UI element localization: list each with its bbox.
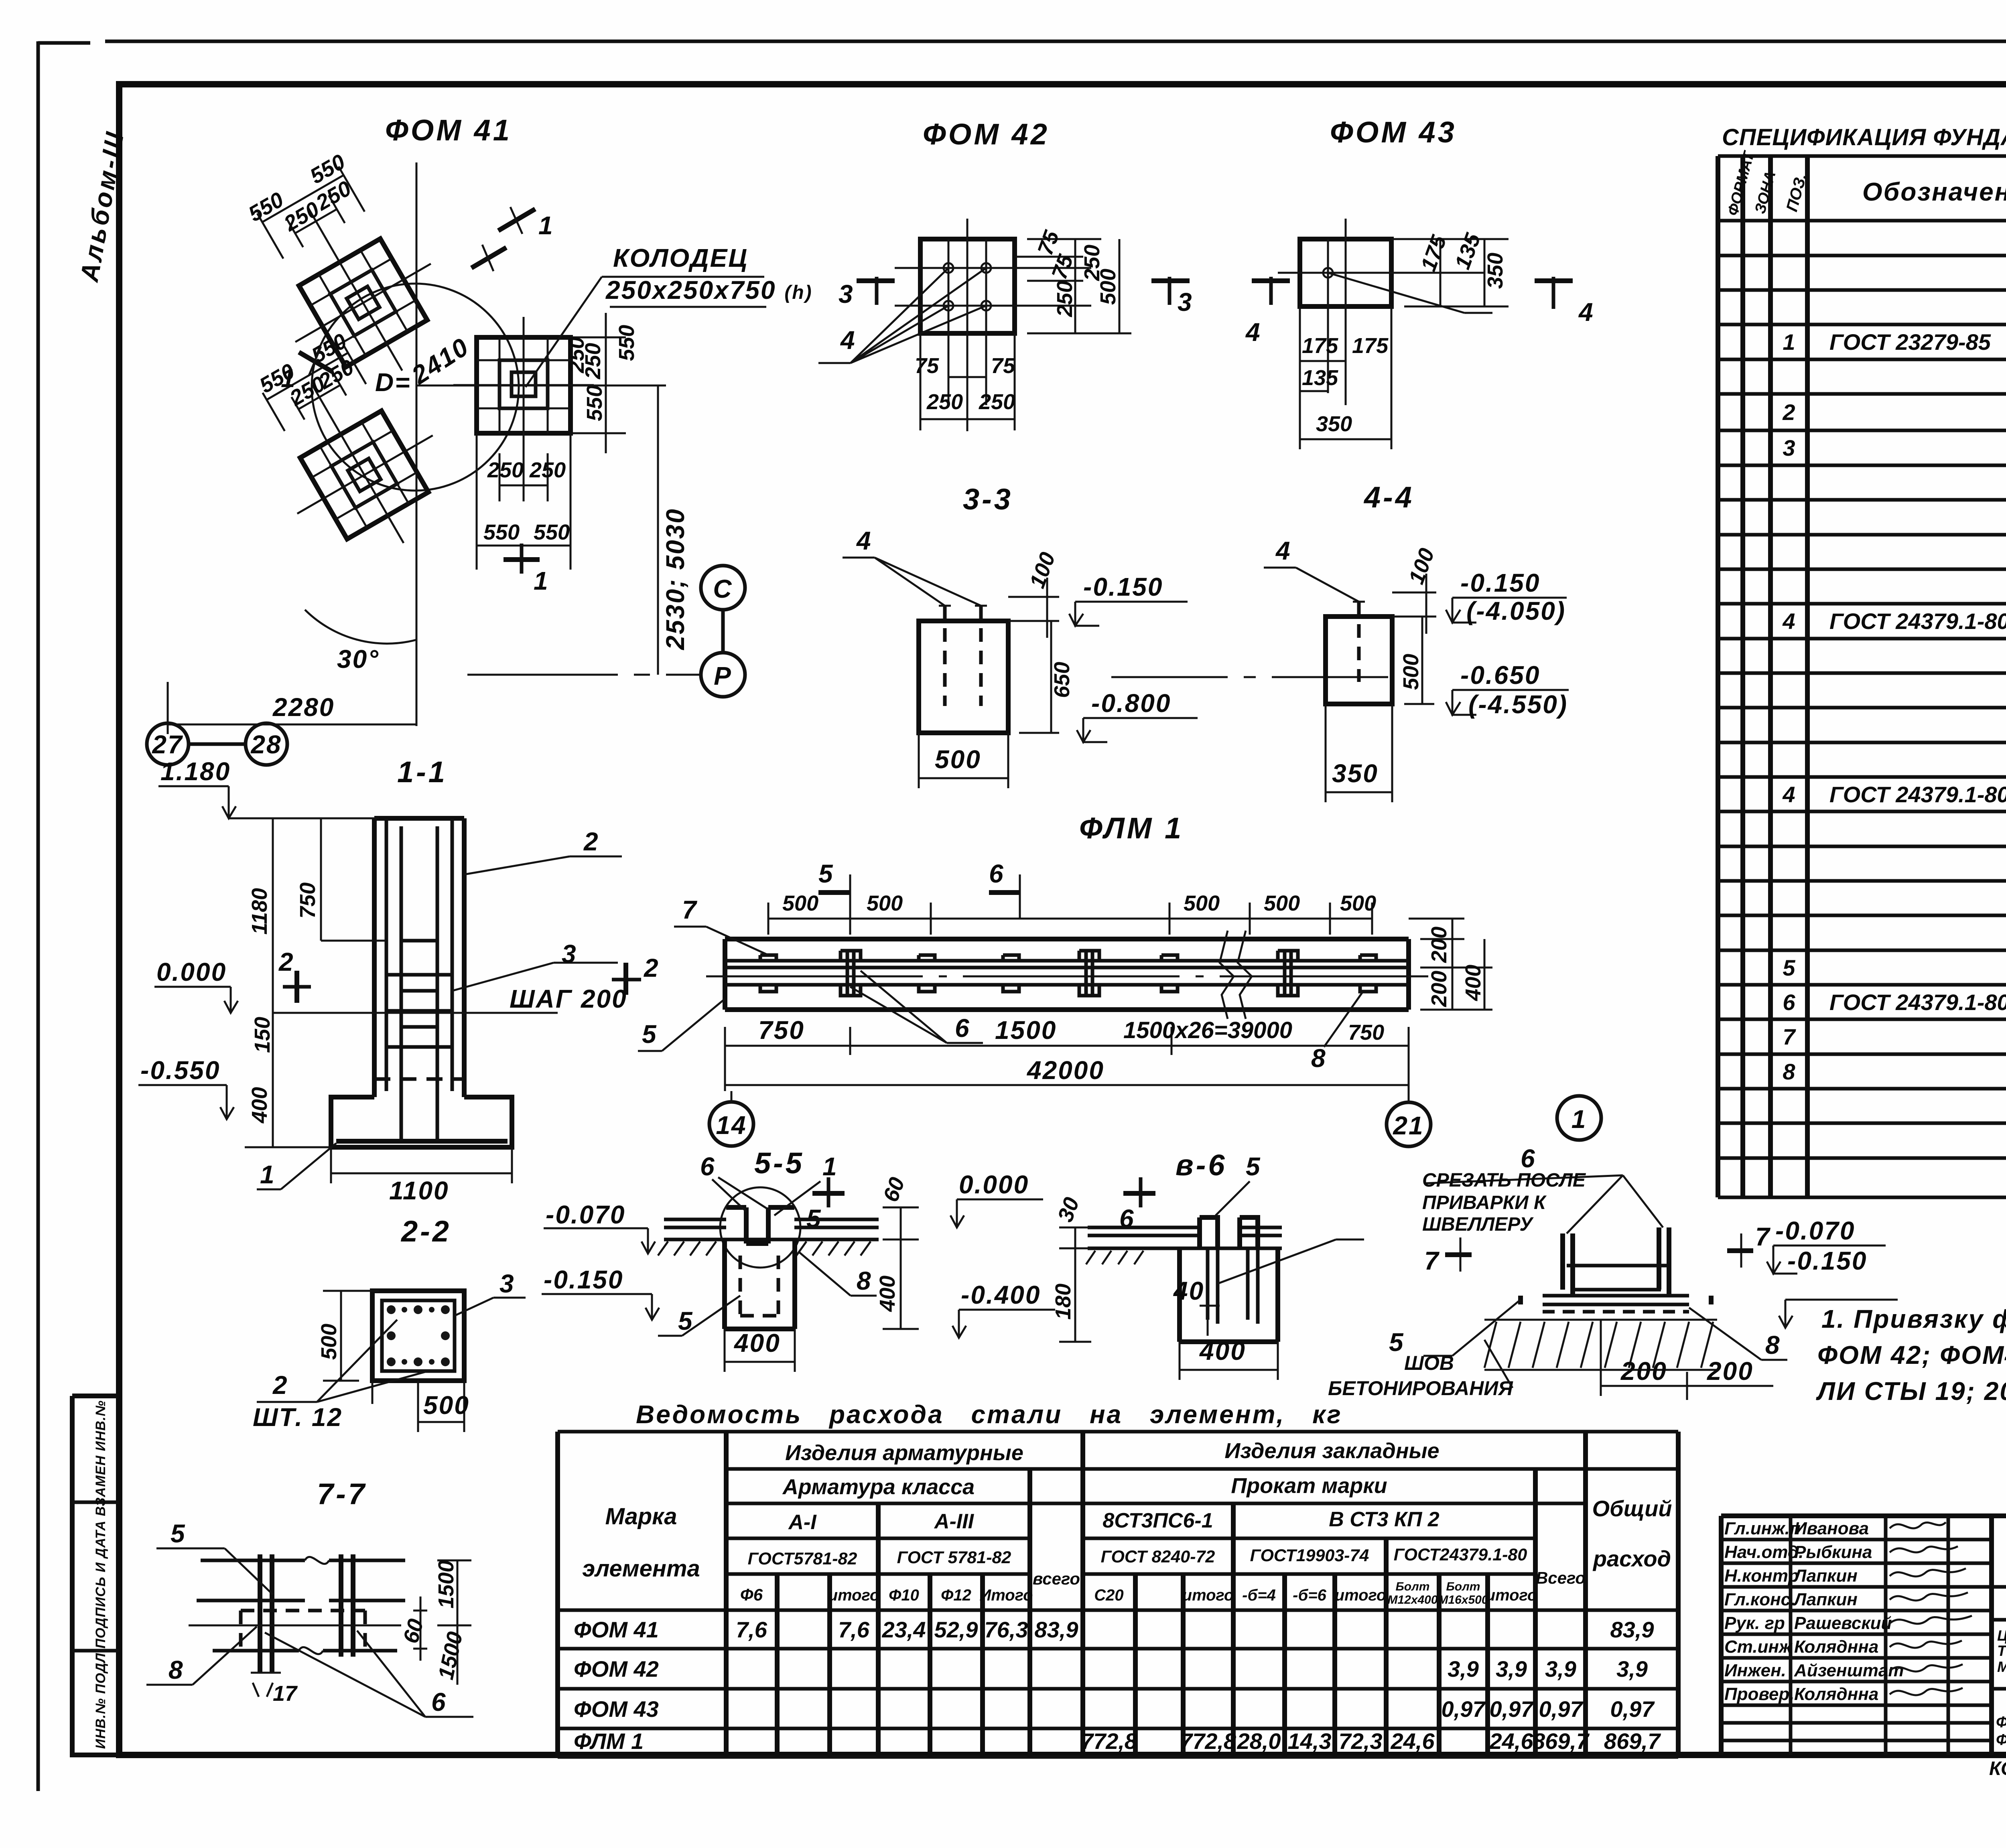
label 1 leader bottom (257, 1143, 336, 1189)
leader 4 (843, 558, 981, 606)
svg-text:250: 250 (926, 390, 963, 414)
svg-text:7: 7 (1755, 1222, 1771, 1251)
svg-text:4: 4 (1578, 298, 1594, 327)
svg-text:400: 400 (733, 1329, 781, 1357)
plate (1521, 1296, 1711, 1304)
svg-text:2280: 2280 (272, 693, 335, 722)
bottom lines (213, 1649, 397, 1653)
svg-text:Гл.инж.п: Гл.инж.п (1724, 1519, 1801, 1538)
svg-text:1: 1 (538, 211, 554, 240)
svg-text:0,97: 0,97 (1610, 1696, 1655, 1722)
kolodec well inside column (401, 826, 437, 941)
svg-text:Изделия арматурные: Изделия арматурные (785, 1441, 1023, 1465)
svg-text:0,97: 0,97 (1442, 1696, 1486, 1722)
svg-text:8: 8 (857, 1266, 872, 1295)
section marks 6 (1123, 1191, 1155, 1196)
svg-text:550: 550 (615, 325, 639, 361)
bolt tops (939, 605, 987, 607)
svg-text:2: 2 (644, 953, 660, 982)
svg-text:Всего: Всего (1536, 1568, 1586, 1587)
plan vertical centerline (416, 162, 418, 726)
right dims 175 135 350 (1391, 239, 1509, 306)
svg-text:500: 500 (317, 1324, 341, 1360)
grid circle 21 (1387, 1102, 1431, 1146)
section mark 1 top right (498, 209, 535, 231)
svg-text:1: 1 (534, 566, 549, 595)
column outer walls (374, 818, 464, 1097)
bottom-left dims 175 175 135 350 (1300, 306, 1391, 449)
dim 400 bottom (1180, 1342, 1278, 1380)
svg-text:ГОСТ 23279-85: ГОСТ 23279-85 (1829, 329, 1991, 355)
svg-text:5: 5 (171, 1519, 186, 1548)
svg-text:7: 7 (1783, 1024, 1796, 1049)
vertical dim 2530;5030 (582, 385, 666, 675)
svg-text:ГОСТ 24379.1-80: ГОСТ 24379.1-80 (1829, 782, 2006, 807)
svg-text:500: 500 (782, 891, 818, 915)
elevation -0.150 (-4.050) (1446, 598, 1567, 623)
dim 650 (1019, 621, 1059, 733)
svg-text:-б=6: -б=6 (1293, 1586, 1326, 1604)
svg-text:250x250x750 (h): 250x250x750 (h) (605, 276, 813, 304)
right dims 75 250 250 500 (1015, 239, 1131, 333)
right dims 1500 60 1500 (413, 1560, 471, 1685)
svg-text:30°: 30° (337, 645, 380, 673)
svg-text:-0.150: -0.150 (1460, 568, 1540, 597)
svg-text:135: 135 (1302, 366, 1338, 390)
svg-text:1500x26=39000: 1500x26=39000 (1123, 1017, 1292, 1043)
svg-text:ГОСТ24379.1-80: ГОСТ24379.1-80 (1394, 1545, 1527, 1564)
svg-text:17: 17 (273, 1682, 298, 1706)
svg-text:2-2: 2-2 (400, 1215, 451, 1248)
outer sheet border top (38, 41, 2006, 43)
rebar verticals into footing (401, 941, 437, 1141)
dim 100 right top (1008, 578, 1059, 638)
svg-text:8СТ3ПС6-1: 8СТ3ПС6-1 (1102, 1509, 1213, 1532)
svg-text:6: 6 (989, 859, 1005, 888)
svg-text:1500: 1500 (434, 1560, 458, 1609)
svg-text:500: 500 (1340, 891, 1376, 915)
grid circle 14 (709, 1102, 753, 1146)
svg-text:75: 75 (915, 354, 939, 378)
label 8 leader (798, 1252, 877, 1296)
svg-text:772,8: 772,8 (1081, 1728, 1137, 1754)
svg-text:28: 28 (250, 730, 282, 759)
label 8 leader (1689, 1308, 1787, 1360)
svg-text:Коляднна: Коляднна (1794, 1684, 1878, 1704)
grid circle P (701, 653, 745, 697)
ground line 0.000 (281, 1012, 558, 1014)
svg-text:500: 500 (935, 745, 981, 774)
layout circle D=2410 (312, 284, 519, 491)
svg-text:1.180: 1.180 (160, 757, 231, 786)
30 deg arc and label (305, 610, 416, 643)
vedomost grid vertical (558, 1432, 1678, 1757)
personnel rows (1721, 1540, 2006, 1740)
svg-text:350: 350 (1332, 759, 1379, 788)
svg-text:1: 1 (260, 1160, 276, 1189)
foundation square right (plan) (453, 317, 594, 453)
section marks 5 around title (812, 1191, 845, 1196)
svg-text:7,6: 7,6 (838, 1617, 870, 1642)
svg-text:ФОМ 42: ФОМ 42 (923, 118, 1050, 151)
svg-text:3,9: 3,9 (1616, 1656, 1648, 1682)
svg-text:D=: D= (375, 368, 411, 397)
svg-text:5: 5 (818, 859, 834, 888)
ground hatching (658, 1241, 871, 1256)
label leaders to right bottom (265, 1631, 473, 1717)
anchor bolt dashed (1357, 602, 1361, 682)
svg-text:-0.150: -0.150 (544, 1265, 623, 1294)
anchor bolts down (1208, 1248, 1258, 1324)
section mark 7 right (1740, 1233, 1742, 1268)
section mark 1 top (near top square) (471, 247, 506, 268)
svg-text:52,9: 52,9 (934, 1617, 978, 1642)
svg-text:28,0: 28,0 (1237, 1728, 1281, 1754)
anchor bolts dashed (945, 606, 981, 706)
dim 40 (1200, 1306, 1220, 1336)
svg-text:1180: 1180 (248, 888, 272, 935)
leader lines to 3 4 (818, 268, 986, 363)
dim chain 500s above beam (768, 903, 1372, 935)
svg-text:Ф10: Ф10 (889, 1586, 919, 1604)
svg-text:ФЛМ 1: ФЛМ 1 (1079, 811, 1184, 845)
svg-text:500: 500 (423, 1391, 470, 1420)
svg-text:6: 6 (1521, 1144, 1536, 1173)
svg-text:5: 5 (1246, 1152, 1261, 1181)
svg-text:Рашевский: Рашевский (1794, 1613, 1892, 1633)
svg-text:ЦЕХ ПО ИЗГОТОВЛЕНИЮ СТРОИ-: ЦЕХ ПО ИЗГОТОВЛЕНИЮ СТРОИ- (1997, 1627, 2006, 1644)
svg-text:А-III: А-III (934, 1510, 975, 1533)
svg-text:Провер.: Провер. (1724, 1684, 1794, 1704)
vertical bolts hatched (260, 1554, 353, 1673)
pit (1180, 1248, 1278, 1342)
svg-text:Обозначение: Обозначение (1862, 177, 2006, 206)
svg-text:Ф12: Ф12 (941, 1586, 971, 1604)
svg-text:ФУНДАМЕНТЫ ПОД ОБОРУДОВАНИЕ: ФУНДАМЕНТЫ ПОД ОБОРУДОВАНИЕ (1996, 1714, 2006, 1731)
svg-text:Гл.конс.: Гл.конс. (1724, 1590, 1795, 1609)
dim row 750 1500 ... (725, 1027, 1409, 1091)
svg-text:ГОСТ5781-82: ГОСТ5781-82 (748, 1549, 857, 1568)
svg-text:175: 175 (1352, 334, 1389, 358)
2280 dim (168, 682, 416, 734)
svg-text:83,9: 83,9 (1610, 1617, 1654, 1642)
svg-text:6: 6 (1783, 990, 1795, 1015)
stamp column dividers (72, 1502, 119, 1651)
svg-text:СПЕЦИФИКАЦИЯ ФУНДАМЕНТОВ ФОМ: СПЕЦИФИКАЦИЯ ФУНДАМЕНТОВ ФОМ41...ФОМ43 ;… (1722, 124, 2006, 150)
svg-text:500: 500 (1264, 891, 1300, 915)
svg-text:Общий: Общий (1592, 1496, 1672, 1521)
anchor bolts (944, 263, 953, 273)
dashed (1543, 1310, 1689, 1314)
svg-text:500: 500 (1096, 269, 1120, 305)
svg-text:-0.650: -0.650 (1460, 661, 1540, 690)
svg-text:550: 550 (483, 520, 520, 544)
svg-text:Иванова: Иванова (1794, 1519, 1869, 1538)
svg-text:3: 3 (839, 280, 854, 308)
svg-text:0.000: 0.000 (959, 1170, 1029, 1199)
left dim chain 1180 750 150 400 (245, 818, 385, 1147)
svg-text:-0.400: -0.400 (961, 1280, 1041, 1309)
svg-text:-б=4: -б=4 (1242, 1586, 1276, 1604)
svg-text:6: 6 (955, 1014, 971, 1043)
svg-text:-0.070: -0.070 (546, 1200, 625, 1229)
svg-text:400: 400 (1461, 965, 1485, 1001)
svg-text:4-4: 4-4 (1363, 481, 1414, 514)
svg-text:Инжен.: Инжен. (1724, 1661, 1786, 1680)
rebar dots (387, 1305, 450, 1366)
svg-text:3,9: 3,9 (1496, 1656, 1527, 1682)
axis P dashed line (467, 674, 702, 676)
ground hatch (1086, 1251, 1143, 1264)
channel section between bolts (1567, 1266, 1667, 1290)
svg-text:2: 2 (1782, 400, 1795, 425)
svg-text:ШОВ: ШОВ (1404, 1352, 1454, 1374)
svg-text:175: 175 (1302, 334, 1338, 358)
beam outline (725, 939, 1409, 1010)
svg-text:Н.контр: Н.контр (1724, 1566, 1799, 1586)
svg-text:750: 750 (758, 1016, 805, 1045)
dim chain above (257, 166, 365, 259)
svg-text:-0.150: -0.150 (1787, 1246, 1867, 1275)
svg-text:В СТ3 КП 2: В СТ3 КП 2 (1329, 1508, 1440, 1531)
grid circle 1 (1557, 1096, 1601, 1140)
svg-text:6: 6 (700, 1152, 716, 1181)
svg-text:расход: расход (1592, 1546, 1671, 1571)
svg-text:8: 8 (1783, 1059, 1795, 1084)
svg-text:4: 4 (1275, 536, 1291, 565)
dim 100 top (1392, 574, 1436, 634)
dim 42000 (725, 1084, 1409, 1086)
svg-text:ШАГ 200: ШАГ 200 (510, 984, 627, 1013)
vedomost grid horizontal (558, 1432, 1678, 1757)
plan square (1300, 239, 1391, 306)
label 5 leader (658, 1296, 740, 1336)
top channel line (201, 1559, 405, 1562)
svg-text:24,6: 24,6 (1489, 1728, 1534, 1754)
svg-text:0.000: 0.000 (156, 957, 227, 986)
svg-text:1-1: 1-1 (397, 755, 447, 789)
channel recess (726, 1207, 794, 1243)
svg-text:ГОСТ 24379.1-80: ГОСТ 24379.1-80 (1829, 990, 2006, 1015)
label 3 шаг 200 (452, 963, 618, 991)
svg-text:27: 27 (152, 730, 183, 759)
svg-text:ПРИВАРКИ К: ПРИВАРКИ К (1422, 1192, 1547, 1213)
label 6 leader mid (850, 971, 983, 1043)
personnel columns (1989, 1516, 1994, 1755)
svg-text:7-7: 7-7 (317, 1477, 367, 1511)
top plate lines (664, 1219, 879, 1239)
section mark 6 above (1019, 874, 1021, 919)
svg-text:А-I: А-I (788, 1511, 817, 1534)
svg-text:5-5: 5-5 (754, 1146, 804, 1180)
dashed footing line (374, 1077, 464, 1081)
dim 500 right (1404, 617, 1434, 704)
svg-text:Лапкин: Лапкин (1793, 1566, 1858, 1586)
bolt clusters along beam (760, 951, 1376, 996)
section mark 5 above (849, 874, 851, 919)
svg-text:350: 350 (1316, 412, 1352, 436)
svg-text:2: 2 (272, 1371, 288, 1400)
beam centerline (706, 976, 1428, 978)
svg-text:7,6: 7,6 (736, 1617, 767, 1642)
svg-text:Арматура класса: Арматура класса (782, 1475, 975, 1499)
svg-text:250: 250 (1053, 281, 1077, 317)
channel rails (725, 961, 1409, 985)
beam right end dims 200 200 400 (1409, 919, 1492, 1010)
section mark 3 left (857, 278, 895, 283)
svg-text:ИНВ.№ ПОДЛ ПОДПИСЬ И ДАТА ВЗ: ИНВ.№ ПОДЛ ПОДПИСЬ И ДАТА ВЗАМЕН ИНВ.№ (93, 1400, 108, 1749)
elevation -0.150 (1075, 602, 1188, 626)
label 2 leader (464, 856, 622, 874)
svg-text:ФОМ 43: ФОМ 43 (574, 1696, 659, 1722)
dims 200 200 (1601, 1320, 1773, 1400)
mid horizontal lines (197, 1599, 405, 1603)
personnel names (1724, 1519, 1904, 1704)
svg-text:550: 550 (534, 520, 570, 544)
section mark 4 right (1535, 278, 1573, 283)
title block frame (1721, 1516, 2006, 1755)
svg-text:21: 21 (1393, 1111, 1424, 1140)
svg-text:элемента: элемента (582, 1556, 700, 1582)
svg-text:14,3: 14,3 (1288, 1728, 1332, 1754)
svg-text:200: 200 (1427, 927, 1451, 963)
section mark 7 left (1460, 1237, 1462, 1272)
svg-text:КОПИРОВАЛ: ГРАФСКАЯ: КОПИРОВАЛ: ГРАФСКАЯ (1989, 1758, 2006, 1779)
rotated square bottom-left (227, 315, 472, 582)
svg-text:7: 7 (682, 895, 698, 924)
svg-text:0,97: 0,97 (1490, 1696, 1535, 1722)
svg-text:Ф6: Ф6 (740, 1585, 763, 1604)
leader 4 (1264, 568, 1359, 602)
svg-text:500: 500 (867, 891, 903, 915)
svg-text:итого: итого (828, 1586, 880, 1604)
top plates (1088, 1227, 1282, 1248)
svg-text:Айзенштат: Айзенштат (1794, 1661, 1904, 1680)
svg-text:3: 3 (499, 1269, 515, 1298)
svg-text:С20: С20 (1094, 1586, 1123, 1604)
svg-text:Лапкин: Лапкин (1793, 1590, 1858, 1609)
svg-text:ЛИ СТЫ 19; 20 ; 21: ЛИ СТЫ 19; 20 ; 21 (1816, 1377, 2006, 1406)
label 3 leader (455, 1298, 526, 1316)
svg-text:250: 250 (487, 458, 524, 482)
svg-text:400: 400 (875, 1276, 899, 1312)
svg-text:8: 8 (169, 1655, 184, 1684)
svg-text:75: 75 (991, 354, 1015, 378)
svg-text:Коляднна: Коляднна (1794, 1637, 1878, 1657)
svg-text:4: 4 (1782, 782, 1795, 807)
svg-text:42000: 42000 (1026, 1056, 1105, 1085)
svg-text:5: 5 (678, 1306, 694, 1335)
bolt axes lines across (895, 239, 1091, 405)
svg-text:ФОМ 43: ФОМ 43 (1330, 116, 1457, 149)
label 8 leader right (1324, 993, 1362, 1047)
svg-text:МОЩНОСТЬЮ 6,0ТЫС.ТОНН ИЗДЕ-: МОЩНОСТЬЮ 6,0ТЫС.ТОНН ИЗДЕ- (1997, 1659, 2006, 1675)
svg-text:40: 40 (1173, 1276, 1204, 1305)
section mark 1 left (299, 352, 333, 372)
break marks (1220, 931, 1252, 1019)
svg-text:ФОМ 41: ФОМ 41 (385, 114, 512, 147)
centerline vertical (966, 219, 968, 431)
leader to 4 (1328, 273, 1492, 313)
svg-text:-0.550: -0.550 (140, 1056, 220, 1085)
svg-text:1: 1 (822, 1152, 838, 1181)
bottom bolt ends (251, 1673, 281, 1697)
dim 500 bottom (372, 1381, 464, 1432)
svg-text:4: 4 (1245, 318, 1261, 347)
spec table grid (1718, 156, 2006, 1197)
svg-text:Марка: Марка (605, 1503, 677, 1530)
svg-text:1500: 1500 (995, 1016, 1057, 1045)
footing (331, 1097, 512, 1147)
column square (372, 1291, 464, 1381)
svg-text:2: 2 (278, 947, 294, 976)
svg-text:итого: итого (1335, 1586, 1387, 1604)
svg-text:5: 5 (1389, 1328, 1405, 1357)
plan square (920, 239, 1015, 333)
svg-text:М12х400: М12х400 (1387, 1593, 1437, 1607)
dim 1100 bottom (331, 1147, 512, 1183)
svg-text:2530; 5030: 2530; 5030 (661, 508, 690, 650)
dims 180 30 left (1059, 1227, 1091, 1342)
svg-text:ФОМ 42: ФОМ 42 (574, 1656, 659, 1682)
svg-text:КОЛОДЕЦ: КОЛОДЕЦ (613, 243, 748, 272)
svg-text:650: 650 (1050, 662, 1074, 698)
svg-text:2: 2 (583, 827, 599, 856)
label 5 leader (1423, 1300, 1521, 1356)
dim 350 bottom (1326, 704, 1392, 802)
svg-text:1: 1 (1783, 329, 1795, 355)
svg-text:всего: всего (1033, 1569, 1080, 1588)
section mark 3 right (1151, 278, 1190, 283)
svg-text:7: 7 (1424, 1246, 1440, 1275)
svg-text:3,9: 3,9 (1448, 1656, 1479, 1682)
svg-text:Рыбкина: Рыбкина (1794, 1542, 1872, 1562)
svg-text:итого: итого (1486, 1586, 1537, 1604)
svg-text:150: 150 (250, 1017, 274, 1053)
svg-text:3: 3 (1783, 435, 1795, 460)
svg-text:-0.800: -0.800 (1091, 689, 1171, 718)
svg-text:ФОМ 41: ФОМ 41 (574, 1617, 659, 1642)
svg-text:Прокат марки: Прокат марки (1231, 1474, 1387, 1498)
dims 75 75 below (948, 376, 986, 378)
svg-text:Нач.отд.: Нач.отд. (1724, 1542, 1803, 1562)
svg-text:ФЛМ 1: ФЛМ 1 (574, 1728, 644, 1754)
stamp column outer (72, 1396, 119, 1755)
svg-text:5: 5 (1783, 955, 1795, 980)
svg-text:ШТ. 12: ШТ. 12 (253, 1403, 343, 1432)
label 5 leader left (638, 999, 725, 1051)
svg-text:6: 6 (431, 1688, 447, 1716)
svg-text:550: 550 (583, 385, 607, 421)
svg-text:200: 200 (1620, 1357, 1667, 1385)
svg-text:772,8: 772,8 (1180, 1728, 1236, 1754)
svg-text:(-4.050): (-4.050) (1466, 596, 1566, 625)
bolts heads above (1200, 1217, 1258, 1248)
svg-text:24,6: 24,6 (1391, 1728, 1435, 1754)
pit walls (725, 1239, 795, 1329)
elevation -0.650 (-4.550) (1446, 690, 1569, 715)
svg-text:350: 350 (1483, 253, 1507, 289)
dim 500 left (323, 1291, 379, 1381)
svg-text:ШВЕЛЛЕРУ: ШВЕЛЛЕРУ (1422, 1214, 1534, 1235)
concrete hatch block (1484, 1320, 1717, 1370)
signatures squiggles (1890, 1522, 1972, 1695)
section body rect (919, 621, 1008, 733)
dim 500 bottom (919, 733, 1008, 788)
svg-text:4: 4 (840, 326, 856, 355)
section mark 4 left (1252, 278, 1290, 283)
grid circles 27 28 (147, 723, 189, 765)
